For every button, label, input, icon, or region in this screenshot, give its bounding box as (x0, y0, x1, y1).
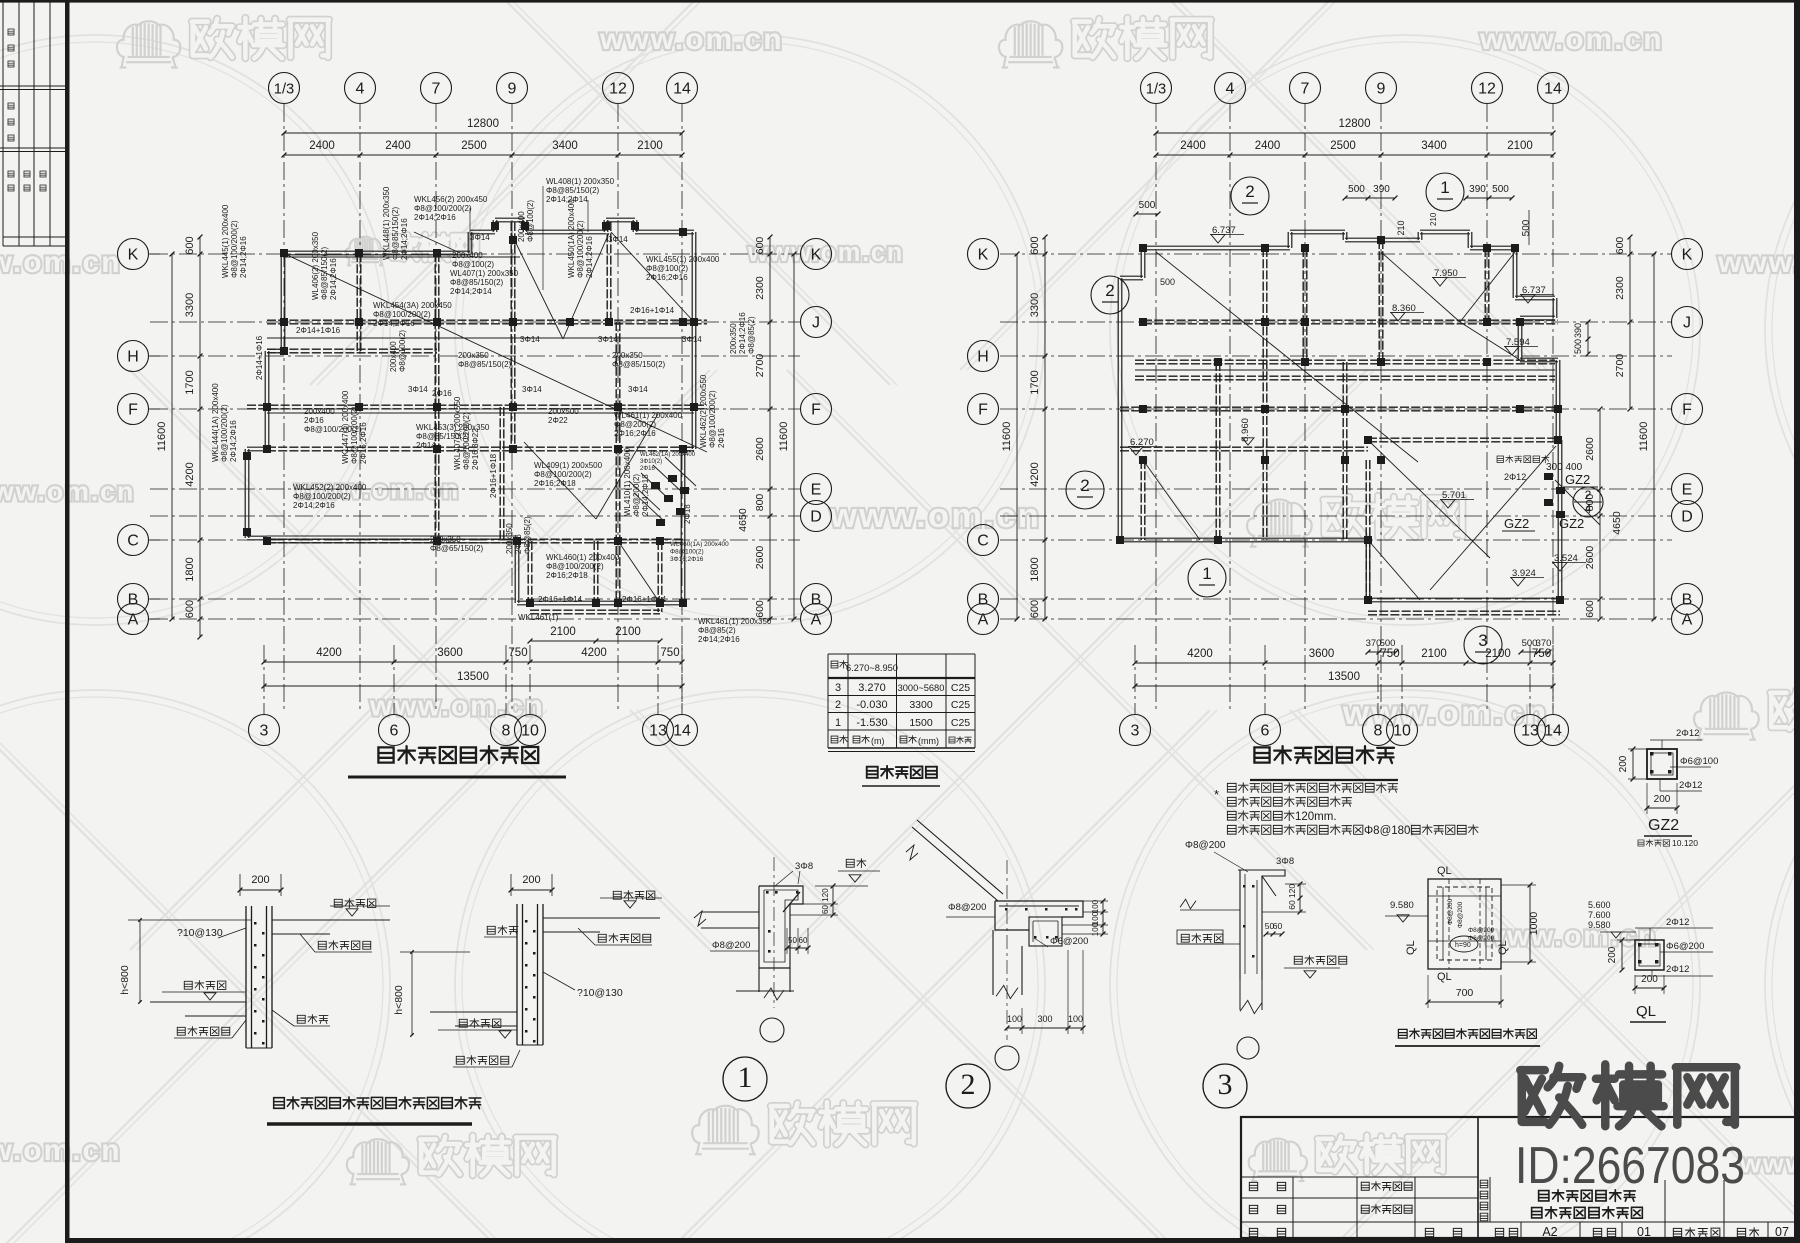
svg-text:2400: 2400 (1255, 140, 1281, 152)
svg-text:h<800: h<800 (393, 985, 405, 1015)
svg-text:C25: C25 (951, 699, 970, 711)
svg-text:3600: 3600 (1309, 648, 1335, 660)
svg-text:100: 100 (1091, 899, 1100, 913)
svg-text:210: 210 (1429, 212, 1438, 226)
svg-text:2600: 2600 (754, 546, 766, 570)
svg-text:B: B (1682, 592, 1693, 609)
svg-text:2Φ12: 2Φ12 (1666, 964, 1689, 975)
svg-text:200x400: 200x400 (517, 211, 526, 242)
svg-text:www.om.cn: www.om.cn (0, 246, 122, 279)
svg-text:Φ8@85(2): Φ8@85(2) (747, 316, 756, 354)
svg-text:QL: QL (1437, 971, 1452, 983)
svg-text:500: 500 (1139, 200, 1156, 211)
svg-text:WL409(1) 200x500: WL409(1) 200x500 (534, 461, 603, 470)
svg-text:WL461(1) 200x400: WL461(1) 200x400 (614, 411, 683, 420)
svg-text:600: 600 (754, 600, 766, 618)
svg-text:QL: QL (1405, 940, 1417, 955)
svg-text:3Φ16;2Φ16: 3Φ16;2Φ16 (670, 556, 704, 563)
svg-text:1800: 1800 (184, 557, 196, 581)
svg-text:13500: 13500 (1328, 671, 1360, 683)
svg-text:1/3: 1/3 (274, 82, 294, 98)
svg-text:2Φ14+1Φ16: 2Φ14+1Φ16 (255, 335, 264, 380)
svg-text:600: 600 (184, 600, 196, 618)
svg-text:210: 210 (1396, 220, 1406, 235)
svg-text:14: 14 (673, 723, 691, 740)
svg-text:2Φ16: 2Φ16 (304, 416, 324, 425)
svg-text:3: 3 (1131, 723, 1140, 740)
svg-text:12: 12 (609, 81, 627, 98)
svg-text:1: 1 (1202, 564, 1211, 583)
svg-text:WL407(1) 200x350: WL407(1) 200x350 (450, 269, 519, 278)
svg-text:?10@130: ?10@130 (177, 927, 223, 939)
svg-text:2300: 2300 (754, 276, 766, 300)
svg-text:2Φ16;2Φ16: 2Φ16;2Φ16 (359, 422, 368, 464)
svg-text:2: 2 (961, 1068, 976, 1101)
svg-text:F: F (978, 402, 988, 419)
svg-text:2Φ14;2Φ16: 2Φ14;2Φ16 (400, 218, 409, 260)
svg-text:7: 7 (432, 81, 441, 98)
svg-text:3300: 3300 (1029, 293, 1041, 317)
svg-text:H: H (127, 349, 139, 366)
svg-text:2: 2 (835, 699, 841, 711)
svg-text:200x500: 200x500 (548, 407, 579, 416)
svg-text:2Φ14;2Φ16: 2Φ14;2Φ16 (293, 501, 335, 510)
svg-text:WKL447(1) 200x400: WKL447(1) 200x400 (341, 390, 350, 464)
svg-text:3Φ14: 3Φ14 (608, 235, 628, 244)
svg-text:GZ2: GZ2 (1648, 817, 1679, 834)
svg-text:3400: 3400 (552, 140, 578, 152)
svg-text:2Φ12: 2Φ12 (1666, 917, 1689, 928)
svg-text:6: 6 (1261, 723, 1270, 740)
svg-text:Φ8@100/200(2): Φ8@100/200(2) (230, 220, 239, 278)
svg-text:Φ8@100/200(2): Φ8@100/200(2) (546, 562, 604, 571)
svg-text:GZ2: GZ2 (1504, 516, 1529, 531)
svg-text:14: 14 (1544, 81, 1562, 98)
svg-text:1: 1 (835, 717, 841, 729)
svg-text:K: K (978, 247, 989, 264)
svg-text:2Φ14: 2Φ14 (416, 441, 436, 450)
svg-text:3Φ8: 3Φ8 (1276, 856, 1294, 867)
svg-text:3Φ14: 3Φ14 (520, 335, 540, 344)
svg-text:390: 390 (1469, 184, 1486, 195)
svg-text:750: 750 (1380, 648, 1399, 660)
svg-text:www.om.cn: www.om.cn (1739, 1148, 1800, 1178)
svg-text:Φ8@100(2): Φ8@100(2) (670, 548, 704, 555)
svg-text:3Φ8: 3Φ8 (795, 861, 813, 872)
svg-text:2Φ12: 2Φ12 (1504, 472, 1526, 482)
svg-text:Φ8@100/200(2): Φ8@100/200(2) (708, 390, 717, 448)
svg-text:3Φ10(2): 3Φ10(2) (640, 459, 662, 465)
svg-text:www.om.cn: www.om.cn (1717, 246, 1800, 279)
svg-text:14: 14 (673, 81, 691, 98)
svg-text:3Φ14: 3Φ14 (682, 335, 702, 344)
svg-text:WL408(1) 200x350: WL408(1) 200x350 (546, 177, 615, 186)
svg-text:WKL454(3A) 200x450: WKL454(3A) 200x450 (373, 301, 452, 310)
svg-text:3: 3 (1478, 631, 1487, 650)
svg-text:1: 1 (738, 1061, 753, 1094)
svg-text:200: 200 (1641, 974, 1658, 985)
svg-text:(m): (m) (871, 736, 885, 746)
svg-text:13: 13 (1521, 723, 1539, 740)
svg-text:Φ8@100(2): Φ8@100(2) (526, 200, 535, 242)
svg-text:2Φ14;2Φ16: 2Φ14;2Φ16 (239, 236, 248, 278)
svg-text:500: 500 (1492, 184, 1509, 195)
svg-text:D: D (810, 509, 822, 526)
svg-text:200x350: 200x350 (729, 323, 738, 354)
svg-text:2Φ14;2Φ18: 2Φ14;2Φ18 (641, 474, 650, 516)
svg-text:4200: 4200 (581, 647, 607, 659)
svg-text:120: 120 (1287, 884, 1297, 898)
svg-text:11600: 11600 (1638, 422, 1650, 452)
svg-text:600: 600 (1029, 600, 1041, 618)
svg-text:6.270~8.950: 6.270~8.950 (846, 663, 898, 673)
svg-text:Φ6@100: Φ6@100 (1680, 756, 1718, 767)
svg-text:QL: QL (1636, 1003, 1656, 1020)
svg-text:750: 750 (660, 647, 679, 659)
svg-text:500: 500 (1573, 339, 1583, 354)
svg-text:1000: 1000 (1528, 912, 1540, 936)
svg-text:F: F (128, 402, 138, 419)
svg-text:10: 10 (521, 723, 539, 740)
svg-text:WKL407(2) 200x550: WKL407(2) 200x550 (453, 396, 462, 470)
svg-text:2100: 2100 (1507, 140, 1533, 152)
svg-text:12800: 12800 (1339, 118, 1371, 130)
svg-text:3300: 3300 (184, 293, 196, 317)
svg-text:F: F (1682, 402, 1692, 419)
svg-text:Φ6@200: Φ6@200 (1468, 935, 1495, 942)
svg-text:390: 390 (1573, 323, 1583, 338)
svg-text:2100: 2100 (637, 140, 663, 152)
svg-text:QL: QL (1497, 940, 1509, 955)
svg-text:WL410(1) 200x400: WL410(1) 200x400 (623, 447, 632, 516)
svg-text:Φ8@85/150(2): Φ8@85/150(2) (450, 278, 504, 287)
svg-text:8: 8 (502, 723, 511, 740)
svg-text:2Φ16;2Φ16: 2Φ16;2Φ16 (646, 273, 688, 282)
svg-text:WKL444(1A) 200x400: WKL444(1A) 200x400 (211, 383, 220, 462)
svg-text:B: B (811, 592, 822, 609)
svg-text:2Φ14;2Φ16: 2Φ14;2Φ16 (738, 312, 747, 354)
svg-text:5.600: 5.600 (1588, 900, 1611, 910)
svg-text:-0.030: -0.030 (856, 699, 887, 711)
svg-text:3400: 3400 (1421, 140, 1447, 152)
svg-text:3Φ14: 3Φ14 (598, 335, 618, 344)
svg-text:A: A (1682, 612, 1693, 629)
svg-text:WKL455(1) 200x400: WKL455(1) 200x400 (646, 255, 720, 264)
svg-text:WKL460(1) 200x400: WKL460(1) 200x400 (546, 553, 620, 562)
svg-text:200: 200 (522, 874, 540, 886)
svg-text:A: A (811, 612, 822, 629)
svg-text:WKL448(1) 200x350: WKL448(1) 200x350 (382, 186, 391, 260)
svg-text:8.960: 8.960 (1240, 418, 1251, 442)
svg-text:500: 500 (1521, 219, 1532, 236)
svg-text:H: H (977, 349, 989, 366)
svg-text:*: * (1214, 787, 1219, 802)
svg-text:2100: 2100 (1485, 648, 1511, 660)
svg-text:1500: 1500 (909, 717, 933, 729)
svg-text:3: 3 (835, 682, 841, 694)
svg-text:2Φ16;2Φ18: 2Φ16;2Φ18 (534, 479, 576, 488)
svg-text:2Φ14;2Φ16: 2Φ14;2Φ16 (373, 319, 415, 328)
svg-text:GZ2: GZ2 (1559, 516, 1584, 531)
svg-text:2: 2 (1245, 182, 1254, 201)
svg-text:3: 3 (260, 723, 269, 740)
svg-text:200x350: 200x350 (505, 523, 514, 554)
svg-text:01: 01 (1637, 1225, 1651, 1239)
svg-text:200: 200 (1654, 794, 1671, 805)
svg-text:A: A (128, 612, 139, 629)
svg-text:4: 4 (1585, 502, 1592, 516)
svg-text:F: F (811, 402, 821, 419)
svg-text:2Φ16: 2Φ16 (640, 466, 655, 472)
svg-text:200x400: 200x400 (452, 251, 483, 260)
svg-text:2Φ14;2Φ16: 2Φ14;2Φ16 (414, 213, 456, 222)
svg-text:2100: 2100 (615, 626, 641, 638)
svg-text:2Φ16;3Φ22: 2Φ16;3Φ22 (471, 428, 480, 470)
svg-text:C: C (977, 533, 989, 550)
svg-text:2Φ14;2Φ16: 2Φ14;2Φ16 (229, 420, 238, 462)
svg-text:2700: 2700 (754, 354, 766, 378)
svg-text:500: 500 (1160, 277, 1175, 287)
svg-text:WL460(1A) 200x400: WL460(1A) 200x400 (670, 541, 729, 548)
svg-text:2600: 2600 (1584, 437, 1596, 461)
svg-text:B: B (128, 592, 139, 609)
svg-text:600: 600 (1029, 236, 1041, 254)
svg-text:7: 7 (1301, 81, 1310, 98)
svg-text:13: 13 (649, 723, 667, 740)
svg-text:9.580: 9.580 (1390, 900, 1414, 911)
svg-text:A: A (978, 612, 989, 629)
svg-text:1800: 1800 (1029, 557, 1041, 581)
svg-text:4650: 4650 (1611, 511, 1623, 535)
svg-text:2Φ14;2Φ16: 2Φ14;2Φ16 (698, 635, 740, 644)
svg-text:2700: 2700 (1614, 354, 1626, 378)
svg-text:Φ8@85/150(2): Φ8@85/150(2) (612, 360, 666, 369)
svg-text:www.om.cn: www.om.cn (1479, 23, 1664, 56)
svg-text:Φ8@100(2): Φ8@100(2) (452, 260, 494, 269)
svg-text:3: 3 (1218, 1068, 1233, 1101)
svg-text:2600: 2600 (754, 437, 766, 461)
svg-text:Φ8@85(2): Φ8@85(2) (523, 516, 532, 554)
svg-text:3600: 3600 (437, 647, 463, 659)
svg-text:3Φ14: 3Φ14 (522, 385, 542, 394)
svg-text:Φ8@100(2): Φ8@100(2) (398, 330, 407, 372)
svg-text:2100: 2100 (550, 626, 576, 638)
svg-text:700: 700 (1456, 987, 1474, 999)
svg-text:www.om.cn: www.om.cn (0, 1134, 122, 1167)
svg-text:QL: QL (1437, 865, 1452, 877)
svg-text:4: 4 (356, 81, 365, 98)
svg-text:C: C (127, 533, 139, 550)
svg-text:2Φ12: 2Φ12 (1679, 780, 1702, 791)
svg-text:60: 60 (1273, 921, 1283, 931)
svg-text:Φ8@100/200(2): Φ8@100/200(2) (350, 406, 359, 464)
svg-text:Φ8@100/200(2): Φ8@100/200(2) (373, 310, 431, 319)
svg-text:-1.530: -1.530 (856, 717, 887, 729)
svg-text:7.600: 7.600 (1588, 910, 1611, 920)
svg-text:2400: 2400 (309, 140, 335, 152)
svg-text:600: 600 (1584, 600, 1596, 618)
svg-text:600: 600 (754, 237, 766, 255)
svg-text:9: 9 (1377, 81, 1386, 98)
svg-text:4200: 4200 (1187, 648, 1213, 660)
svg-text:h=90: h=90 (1455, 942, 1471, 949)
svg-text:300: 300 (1037, 1014, 1052, 1024)
svg-text:Φ8@85(2): Φ8@85(2) (698, 626, 736, 635)
svg-text:2500: 2500 (1330, 140, 1356, 152)
svg-text:2Φ16;2Φ18: 2Φ16;2Φ18 (546, 571, 588, 580)
svg-text:3Φ14: 3Φ14 (408, 385, 428, 394)
svg-text:2Φ16: 2Φ16 (514, 534, 523, 554)
svg-text:200x350: 200x350 (612, 351, 643, 360)
svg-text:Φ8@100/200(2): Φ8@100/200(2) (293, 492, 351, 501)
svg-text:2Φ14;2Φ14: 2Φ14;2Φ14 (450, 287, 492, 296)
svg-text:12800: 12800 (467, 118, 499, 130)
svg-text:2Φ14;2Φ16: 2Φ14;2Φ16 (585, 236, 594, 278)
svg-text:8: 8 (1374, 723, 1383, 740)
svg-text:www.om.cn: www.om.cn (599, 23, 784, 56)
svg-text:2300: 2300 (1614, 276, 1626, 300)
svg-text:WKL452(2) 200x400: WKL452(2) 200x400 (293, 483, 367, 492)
svg-text:300 400: 300 400 (1546, 462, 1583, 473)
svg-text:4650: 4650 (737, 508, 749, 532)
svg-text:Φ8@200: Φ8@200 (1457, 901, 1464, 928)
svg-text:12: 12 (1478, 81, 1496, 98)
svg-text:2500: 2500 (461, 140, 487, 152)
svg-text:60: 60 (1287, 900, 1297, 910)
svg-text:Φ8@85/150(2): Φ8@85/150(2) (320, 246, 329, 300)
svg-text:13500: 13500 (457, 671, 489, 683)
svg-text:1700: 1700 (1029, 370, 1041, 394)
svg-text:WKL450(1A) 200x400: WKL450(1A) 200x400 (567, 199, 576, 278)
svg-text:200: 200 (251, 874, 269, 886)
svg-text:100: 100 (1007, 1014, 1022, 1024)
svg-text:Φ8@65/150(2): Φ8@65/150(2) (430, 544, 484, 553)
svg-text:WKL461(1): WKL461(1) (518, 613, 559, 622)
svg-text:60: 60 (821, 905, 830, 914)
svg-text:2Φ16+1Φ14: 2Φ16+1Φ14 (538, 595, 583, 604)
svg-text:200: 200 (1618, 755, 1629, 772)
svg-text:4200: 4200 (184, 462, 196, 486)
svg-text:Φ8@100/200(2): Φ8@100/200(2) (220, 404, 229, 462)
svg-text:2: 2 (1585, 488, 1592, 502)
svg-text:9: 9 (508, 81, 517, 98)
svg-text:1: 1 (1440, 178, 1449, 197)
svg-text:200x400: 200x400 (389, 341, 398, 372)
svg-text:4200: 4200 (316, 647, 342, 659)
svg-text:2400: 2400 (385, 140, 411, 152)
svg-text:750: 750 (1532, 648, 1551, 660)
svg-text:K: K (811, 247, 822, 264)
svg-text:11600: 11600 (778, 422, 790, 452)
svg-text:9.580: 9.580 (1588, 920, 1611, 930)
svg-text:3300: 3300 (909, 699, 933, 711)
svg-text:2: 2 (1105, 281, 1114, 300)
svg-text:Φ6@200: Φ6@200 (1666, 941, 1704, 952)
svg-text:390: 390 (1373, 184, 1390, 195)
svg-text:600: 600 (184, 236, 196, 254)
svg-text:2Φ18: 2Φ18 (683, 504, 692, 524)
svg-text:C25: C25 (951, 717, 970, 729)
svg-text:K: K (128, 247, 139, 264)
svg-text:2600: 2600 (1584, 546, 1596, 570)
svg-text:11600: 11600 (156, 422, 168, 452)
svg-text:4200: 4200 (1029, 462, 1041, 486)
svg-text:60: 60 (799, 936, 808, 945)
svg-text:2Φ12: 2Φ12 (1676, 728, 1699, 739)
svg-text:2400: 2400 (1180, 140, 1206, 152)
svg-text:3.270: 3.270 (858, 682, 886, 694)
svg-text:800: 800 (754, 494, 766, 512)
svg-text:120mm.: 120mm. (1295, 811, 1337, 823)
svg-text:200x350: 200x350 (430, 535, 461, 544)
svg-text:WKL461(1) 200x350: WKL461(1) 200x350 (698, 617, 772, 626)
svg-text:Φ8@85/150(2): Φ8@85/150(2) (458, 360, 512, 369)
svg-text:2Φ16: 2Φ16 (432, 389, 452, 398)
svg-text:6: 6 (390, 723, 399, 740)
svg-text:E: E (1682, 482, 1693, 499)
svg-text:J: J (812, 315, 820, 332)
svg-text:200x350: 200x350 (458, 351, 489, 360)
svg-text:Φ8@200: Φ8@200 (948, 902, 986, 913)
svg-text:Φ8@200(2): Φ8@200(2) (632, 474, 641, 516)
svg-text:WL406(2) 200x350: WL406(2) 200x350 (311, 231, 320, 300)
svg-text:Φ8@85/150(2): Φ8@85/150(2) (391, 206, 400, 260)
svg-text:GZ2: GZ2 (1565, 472, 1590, 487)
svg-text:WKL445(1) 200x400: WKL445(1) 200x400 (221, 204, 230, 278)
svg-text:Φ8@200: Φ8@200 (712, 940, 750, 951)
svg-text:3Φ14: 3Φ14 (628, 385, 648, 394)
svg-text:D: D (1681, 509, 1693, 526)
svg-text:(mm): (mm) (918, 736, 939, 746)
svg-text:4: 4 (1226, 81, 1235, 98)
svg-text:Φ8@200: Φ8@200 (1468, 927, 1495, 934)
svg-text:2Φ16+1Φ18: 2Φ16+1Φ18 (489, 453, 498, 498)
svg-text:h<800: h<800 (119, 965, 131, 995)
svg-text:10.120: 10.120 (1672, 838, 1698, 848)
svg-text:2Φ16+1Φ14: 2Φ16+1Φ14 (622, 595, 667, 604)
svg-text:2Φ16+1Φ14: 2Φ16+1Φ14 (630, 306, 675, 315)
svg-text:B: B (978, 592, 989, 609)
svg-text:Φ8@180,: Φ8@180, (1364, 825, 1414, 837)
svg-text:2: 2 (1080, 476, 1089, 495)
svg-text:ID:2667083: ID:2667083 (1515, 1137, 1745, 1195)
svg-text:14: 14 (1544, 723, 1562, 740)
svg-text:A2: A2 (1542, 1225, 1557, 1239)
svg-text:C25: C25 (951, 682, 970, 694)
svg-text:500: 500 (1348, 184, 1365, 195)
svg-text:100: 100 (1068, 1014, 1083, 1024)
svg-text:750: 750 (508, 647, 527, 659)
svg-text:Φ8@100/200(2): Φ8@100/200(2) (534, 470, 592, 479)
svg-text:2100: 2100 (1421, 648, 1447, 660)
svg-text:11600: 11600 (1001, 422, 1013, 452)
svg-text:J: J (1683, 315, 1691, 332)
svg-text:1/3: 1/3 (1146, 82, 1166, 98)
svg-text:Φ8@200: Φ8@200 (1447, 898, 1454, 925)
svg-text:2Φ14+1Φ16: 2Φ14+1Φ16 (296, 326, 341, 335)
svg-text:WKL456(2) 200x450: WKL456(2) 200x450 (414, 195, 488, 204)
svg-text:600: 600 (1614, 237, 1626, 255)
svg-text:2Φ22: 2Φ22 (548, 416, 568, 425)
svg-text:2Φ16: 2Φ16 (717, 428, 726, 448)
svg-text:Φ8@85/150(2): Φ8@85/150(2) (546, 186, 600, 195)
svg-text:10: 10 (1393, 723, 1411, 740)
svg-text:Φ6@200: Φ6@200 (1050, 936, 1088, 947)
svg-text:Φ8@100/200(2): Φ8@100/200(2) (414, 204, 472, 213)
svg-text:WL462(1A) 200x400: WL462(1A) 200x400 (640, 452, 696, 458)
svg-text:3Φ14: 3Φ14 (470, 233, 490, 242)
svg-text:Φ8@100/200(2): Φ8@100/200(2) (462, 412, 471, 470)
